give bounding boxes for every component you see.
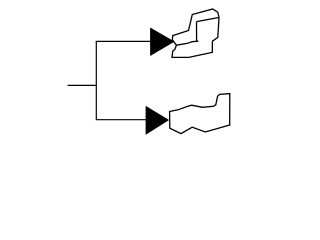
arrowhead top (150, 28, 174, 56)
blob shape top inner fold horizontal (176, 41, 198, 45)
blob shape top inner fold diagonal (197, 18, 219, 22)
blob shape top outline (172, 9, 219, 57)
wire stub root (68, 84, 97, 86)
arrowhead bottom (146, 106, 169, 134)
wire top branch (96, 40, 151, 42)
wire bottom branch (96, 119, 147, 121)
wire vertical trunk (95, 41, 97, 119)
blob shape top inner fold vertical (196, 22, 198, 42)
blob shape bottom outline (170, 94, 230, 134)
